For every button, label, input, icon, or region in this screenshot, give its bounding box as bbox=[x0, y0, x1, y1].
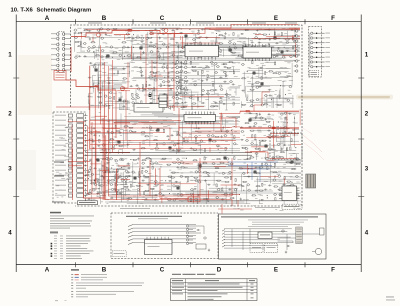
value label bbox=[57, 196, 59, 199]
wire bbox=[123, 100, 130, 102]
terminal T8 lug bbox=[311, 66, 313, 68]
junction node bbox=[121, 167, 122, 168]
red wire bbox=[118, 165, 130, 167]
connector CN9 pin 8 bbox=[296, 65, 298, 67]
value label bbox=[166, 101, 169, 104]
value label bbox=[268, 176, 270, 179]
connector CN3 pin 12 bbox=[77, 169, 84, 172]
value label bbox=[97, 170, 101, 173]
resistor R203 bbox=[176, 186, 179, 187]
wire bbox=[112, 194, 130, 196]
resistor R245 bbox=[274, 163, 275, 166]
value label bbox=[263, 184, 266, 187]
capacitor C54 bbox=[148, 84, 150, 86]
transistor Q13 bbox=[107, 29, 109, 31]
section header label bbox=[252, 22, 266, 25]
value label bbox=[111, 67, 115, 70]
resistor R181 bbox=[128, 198, 131, 199]
wire bbox=[174, 51, 221, 53]
wire bbox=[283, 178, 285, 204]
transistor Q67 bbox=[172, 106, 174, 108]
transistor Q118 bbox=[272, 156, 274, 158]
connector CN1 pin 1 bbox=[56, 33, 59, 36]
wire bbox=[276, 137, 285, 139]
value label bbox=[150, 148, 153, 151]
resistor R249 bbox=[284, 177, 285, 180]
value label bbox=[102, 136, 104, 139]
value label bbox=[260, 202, 263, 205]
transistor Q167 bbox=[247, 184, 249, 186]
connector CN9 pin 6 bbox=[296, 55, 298, 57]
value label bbox=[126, 164, 130, 167]
transistor Q161 bbox=[222, 172, 224, 174]
wire bbox=[99, 85, 122, 87]
capacitor C60 bbox=[163, 93, 165, 95]
terminal T5 lug bbox=[311, 51, 313, 53]
value label bbox=[192, 32, 195, 35]
value label bbox=[126, 66, 130, 69]
wire bbox=[201, 165, 301, 167]
transistor Q20 bbox=[150, 32, 152, 34]
value label bbox=[185, 166, 188, 169]
transistor Q57 bbox=[137, 97, 139, 99]
value label bbox=[212, 85, 214, 88]
value label bbox=[295, 46, 298, 49]
value label bbox=[82, 46, 85, 49]
value label bbox=[180, 136, 182, 139]
transistor Q78 bbox=[220, 85, 222, 87]
transistor Q107 bbox=[226, 130, 228, 132]
value label bbox=[159, 78, 162, 81]
svg-text:E: E bbox=[274, 15, 278, 22]
value label bbox=[87, 35, 90, 38]
value label bbox=[180, 54, 182, 57]
value label bbox=[56, 185, 59, 188]
red wire bbox=[81, 32, 83, 39]
section header label bbox=[150, 22, 166, 25]
value label bbox=[168, 89, 172, 92]
red wire bbox=[95, 115, 107, 117]
resistor R164 bbox=[286, 148, 287, 151]
wire bbox=[257, 46, 259, 60]
resistor R132 bbox=[177, 135, 180, 136]
resistor R75 bbox=[184, 63, 187, 64]
wire bbox=[176, 85, 178, 107]
resistor R14 bbox=[150, 30, 153, 31]
red wire bbox=[247, 164, 249, 174]
transistor Q175 bbox=[291, 197, 293, 199]
resistor R242 bbox=[260, 190, 263, 191]
resistor R3 bbox=[80, 42, 81, 45]
value label bbox=[206, 175, 210, 178]
wire bbox=[274, 28, 276, 37]
wire bbox=[100, 161, 102, 191]
wire bbox=[119, 103, 121, 110]
resistor R211 bbox=[194, 160, 197, 161]
wire bbox=[85, 36, 247, 38]
capacitor C136 bbox=[197, 194, 199, 196]
transistor Q183 bbox=[125, 170, 127, 172]
value label bbox=[97, 131, 101, 134]
wire bbox=[91, 171, 93, 185]
red wire bbox=[138, 122, 157, 124]
resistor R82 bbox=[192, 103, 195, 104]
value label bbox=[277, 104, 281, 107]
value label bbox=[170, 33, 172, 36]
resistor R84 bbox=[198, 97, 199, 100]
resistor R92 bbox=[223, 64, 226, 65]
value label bbox=[272, 114, 275, 117]
wire bbox=[168, 200, 301, 202]
value label bbox=[250, 53, 253, 56]
wire bbox=[109, 143, 111, 155]
IF transformer T1 bbox=[159, 95, 167, 101]
resistor R24 bbox=[198, 46, 201, 47]
junction node bbox=[267, 195, 268, 196]
value label bbox=[213, 100, 216, 103]
capacitor C4 bbox=[88, 30, 90, 32]
value label bbox=[269, 188, 271, 191]
junction node bbox=[248, 172, 249, 173]
red wire bbox=[140, 51, 142, 60]
red wire bbox=[94, 88, 96, 184]
red wire bbox=[158, 161, 229, 163]
capacitor C20 bbox=[201, 29, 203, 31]
value label bbox=[166, 116, 168, 119]
transistor Q145 bbox=[177, 158, 179, 160]
resistor R57 bbox=[141, 101, 142, 104]
resistor R69 bbox=[177, 81, 180, 82]
value label bbox=[185, 136, 187, 139]
value label bbox=[145, 29, 148, 32]
resistor R27 bbox=[219, 35, 222, 36]
ground symbol bbox=[180, 61, 182, 62]
resistor R120 bbox=[119, 145, 122, 146]
transistor Q52 bbox=[123, 100, 125, 102]
connector CN2 pin 10 bbox=[68, 159, 72, 162]
junction node bbox=[231, 130, 232, 131]
value label bbox=[225, 140, 228, 143]
value label bbox=[189, 198, 193, 201]
resistor R58 bbox=[146, 84, 147, 87]
capacitor C83 bbox=[268, 89, 270, 91]
wire bbox=[116, 120, 149, 122]
value label bbox=[214, 42, 217, 45]
wire bbox=[97, 190, 218, 192]
value label bbox=[272, 199, 276, 202]
wire bbox=[170, 54, 300, 56]
value label bbox=[118, 38, 121, 41]
svg-text:3: 3 bbox=[365, 166, 369, 173]
wire bbox=[266, 95, 268, 109]
value label bbox=[110, 52, 114, 55]
transistor Q111 bbox=[246, 139, 248, 141]
resistor R213 bbox=[204, 157, 205, 160]
capacitor C86 bbox=[93, 134, 95, 136]
wire bbox=[225, 90, 227, 110]
resistor R179 bbox=[125, 186, 128, 187]
IF transformer T5 bbox=[150, 103, 153, 106]
value label bbox=[229, 39, 233, 42]
junction node bbox=[112, 57, 113, 58]
value label bbox=[106, 184, 109, 187]
transistor Q45 bbox=[295, 49, 297, 51]
value label bbox=[123, 168, 126, 171]
capacitor C23 bbox=[241, 33, 243, 35]
value label bbox=[258, 193, 262, 196]
value label bbox=[99, 80, 101, 83]
value label bbox=[227, 115, 229, 118]
IF transformer T13 bbox=[249, 119, 252, 122]
junction node bbox=[229, 46, 230, 47]
capacitor C68 bbox=[201, 80, 203, 82]
capacitor C132 bbox=[168, 180, 170, 182]
wire bbox=[287, 133, 299, 135]
transistor Q62 bbox=[163, 81, 165, 83]
capacitor C7 bbox=[127, 46, 129, 48]
wire bbox=[101, 191, 123, 193]
capacitor C120 bbox=[127, 163, 129, 165]
value label bbox=[180, 45, 182, 48]
resistor R206 bbox=[181, 167, 184, 168]
svg-text:2: 2 bbox=[8, 111, 12, 118]
value label bbox=[167, 84, 171, 87]
resistor R88 bbox=[213, 83, 214, 86]
capacitor C33 bbox=[275, 42, 277, 44]
value label bbox=[179, 199, 181, 202]
value label bbox=[262, 64, 265, 67]
value label bbox=[92, 28, 94, 31]
connector CN4 pin 5 bbox=[176, 81, 179, 84]
transistor Q74 bbox=[211, 61, 213, 63]
value label bbox=[217, 94, 219, 97]
red wire bbox=[266, 35, 300, 37]
resistor R201 bbox=[172, 172, 175, 173]
value label bbox=[66, 126, 69, 129]
value label bbox=[232, 38, 234, 41]
capacitor C9 bbox=[141, 41, 143, 43]
value label bbox=[184, 92, 187, 95]
connector CN4 pin 3 bbox=[176, 71, 179, 74]
wire bbox=[197, 120, 240, 122]
value label bbox=[156, 163, 160, 166]
red wire bbox=[183, 163, 194, 165]
wire bbox=[95, 49, 97, 58]
wire bbox=[271, 95, 273, 108]
section header label bbox=[285, 22, 297, 25]
resistor R189 bbox=[146, 176, 149, 177]
resistor R207 bbox=[181, 194, 182, 197]
wire bbox=[90, 119, 172, 121]
value label bbox=[119, 34, 122, 37]
terminal T6 stub bbox=[322, 56, 325, 58]
value label bbox=[198, 131, 202, 134]
value label bbox=[264, 156, 268, 159]
connector CN5 pin 5 bbox=[185, 82, 187, 84]
transistor Q70 bbox=[190, 96, 192, 98]
value label bbox=[61, 137, 65, 140]
value label bbox=[92, 198, 95, 201]
red wire bbox=[250, 150, 265, 152]
value label bbox=[59, 189, 62, 192]
resistor R87 bbox=[207, 75, 208, 78]
value label bbox=[169, 142, 172, 145]
wire bbox=[241, 174, 243, 192]
transistor Q31 bbox=[197, 32, 199, 34]
value label bbox=[134, 122, 138, 125]
terminal T1 lug bbox=[311, 32, 313, 34]
value label bbox=[167, 188, 171, 191]
red wire bbox=[114, 182, 116, 192]
red wire bbox=[267, 160, 274, 162]
transistor Q106 bbox=[217, 145, 219, 147]
value label bbox=[246, 55, 250, 58]
wire bbox=[255, 139, 257, 149]
value label bbox=[164, 197, 167, 200]
value label bbox=[92, 37, 96, 40]
value label bbox=[231, 95, 235, 98]
resistor R109 bbox=[269, 71, 272, 72]
transistor Q61 bbox=[162, 66, 164, 68]
junction node bbox=[124, 56, 125, 57]
value label bbox=[159, 62, 162, 65]
connector CN2 pin 14 bbox=[68, 179, 72, 182]
junction node bbox=[103, 135, 104, 136]
value label bbox=[224, 172, 226, 175]
value label bbox=[155, 175, 158, 178]
frame left tick row3 bbox=[13, 196, 19, 198]
value label bbox=[216, 102, 218, 105]
capacitor C71 bbox=[206, 90, 208, 92]
connector CN9 pin 3 bbox=[296, 40, 298, 42]
capacitor C130 bbox=[154, 199, 156, 201]
connector CN1 pin 7 bbox=[56, 64, 59, 67]
value label bbox=[207, 76, 210, 79]
value label bbox=[217, 42, 219, 45]
value label bbox=[267, 156, 270, 159]
value label bbox=[132, 123, 136, 126]
frame bottom tick 5 bbox=[304, 262, 306, 267]
wire bbox=[177, 82, 230, 84]
capacitor C3 bbox=[83, 55, 85, 57]
value label bbox=[116, 139, 119, 142]
wire bbox=[192, 190, 194, 205]
value label bbox=[227, 96, 230, 99]
wire bbox=[247, 70, 263, 72]
resistor R98 bbox=[242, 78, 245, 79]
wire bbox=[97, 88, 125, 90]
resistor R35 bbox=[241, 56, 244, 57]
junction node bbox=[91, 180, 92, 181]
wire bbox=[243, 46, 245, 57]
wire bbox=[246, 85, 270, 87]
transistor Q155 bbox=[198, 170, 200, 172]
value label bbox=[237, 34, 240, 37]
resistor R205 bbox=[181, 162, 184, 163]
resistor R115 bbox=[103, 149, 106, 150]
value label bbox=[106, 198, 109, 201]
resistor R37 bbox=[251, 46, 254, 47]
value label bbox=[150, 79, 154, 82]
value label bbox=[153, 54, 157, 57]
red wire bbox=[232, 126, 240, 128]
capacitor C104 bbox=[249, 118, 251, 120]
value label bbox=[155, 42, 158, 45]
value label bbox=[199, 35, 201, 38]
value label bbox=[277, 173, 281, 176]
capacitor C70 bbox=[202, 102, 204, 104]
capacitor C149 bbox=[272, 157, 274, 159]
resistor R271 bbox=[117, 192, 118, 195]
value label bbox=[202, 193, 205, 196]
value label bbox=[285, 47, 289, 50]
junction node bbox=[99, 197, 100, 198]
resistor R177 bbox=[116, 177, 119, 178]
connector CN2 pin 3 bbox=[68, 124, 72, 127]
resistor R219 bbox=[216, 168, 219, 169]
value label bbox=[136, 34, 139, 37]
value label bbox=[237, 55, 241, 58]
antenna terminal dashed box bbox=[309, 27, 322, 78]
resistor R158 bbox=[272, 136, 275, 137]
ground symbol bbox=[143, 175, 145, 176]
capacitor C154 bbox=[95, 158, 97, 160]
value label bbox=[210, 40, 214, 43]
resistor R264 bbox=[95, 179, 98, 180]
value label bbox=[211, 105, 213, 108]
junction node bbox=[287, 122, 288, 123]
wire bbox=[154, 190, 273, 192]
value label bbox=[109, 50, 113, 53]
wire bbox=[112, 53, 173, 55]
resistor R83 bbox=[198, 72, 199, 75]
transistor Q3 bbox=[75, 56, 77, 58]
IF transformer T9 bbox=[229, 49, 232, 52]
value label bbox=[102, 67, 104, 70]
value label bbox=[243, 158, 247, 161]
resistor R2 bbox=[78, 33, 81, 34]
wire bbox=[118, 150, 120, 154]
terminal T4 lug bbox=[311, 46, 313, 48]
value label bbox=[274, 150, 278, 153]
svg-text:B: B bbox=[102, 15, 107, 22]
capacitor C106 bbox=[253, 125, 255, 127]
IF transformer T4 bbox=[159, 98, 162, 101]
connector CN1 pin 6 bbox=[56, 58, 59, 61]
value label bbox=[159, 73, 162, 76]
value label bbox=[134, 172, 137, 175]
connector CN1 pin 5 bbox=[56, 54, 59, 57]
value label bbox=[279, 180, 282, 183]
wire bbox=[282, 123, 284, 149]
junction node bbox=[130, 159, 131, 160]
value label bbox=[258, 32, 261, 35]
transistor Q128 bbox=[107, 179, 109, 181]
wire bbox=[247, 90, 274, 92]
wire bbox=[159, 53, 161, 60]
connector CN2 pin 13 bbox=[68, 174, 72, 177]
resistor R214 bbox=[203, 163, 206, 164]
connector CN3 pin 5 bbox=[77, 134, 84, 137]
wire bbox=[98, 168, 130, 170]
value label bbox=[100, 194, 104, 197]
capacitor C105 bbox=[249, 126, 251, 128]
value label bbox=[141, 44, 143, 47]
resistor R16 bbox=[149, 46, 152, 47]
value label bbox=[191, 94, 195, 97]
transistor Q115 bbox=[255, 152, 257, 154]
junction node bbox=[278, 122, 279, 123]
